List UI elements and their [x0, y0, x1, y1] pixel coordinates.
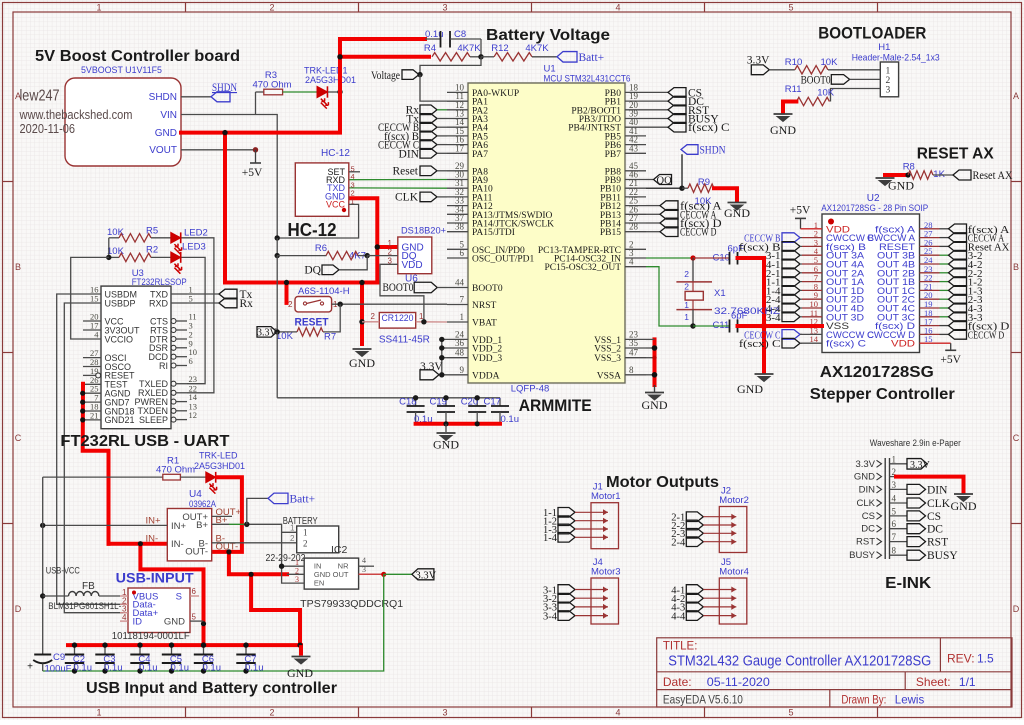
svg-text:VDD: VDD [402, 260, 423, 271]
wire SHDN to PB10 [646, 154, 682, 188]
MCU pin 30 PA9 [447, 179, 468, 181]
wire DS18B20 VDD to VBAT net [380, 264, 424, 322]
svg-text:4: 4 [629, 257, 634, 267]
svg-text:PA7: PA7 [472, 150, 488, 160]
resistor R10 [795, 66, 828, 74]
U3 pin 3 RTS [171, 328, 176, 333]
U3 pin 7 GND7 [83, 401, 101, 403]
connector J1 body [591, 503, 619, 549]
svg-text:5VBOOST U1V11F5: 5VBOOST U1V11F5 [81, 65, 162, 75]
MCU pin 8 VSSA [625, 374, 646, 376]
svg-text:ARMMITE: ARMMITE [519, 397, 592, 415]
svg-text:RI: RI [159, 361, 168, 371]
svg-text:EN: EN [314, 579, 324, 588]
junction IC2 OUT [381, 572, 386, 577]
svg-text:RST: RST [927, 537, 948, 549]
capacitor C2 [74, 645, 76, 654]
svg-text:DC: DC [861, 524, 875, 535]
net flag f(scx) D (U2 right) [949, 321, 967, 331]
wire USBDM down to USB Data- [57, 294, 123, 604]
U3 pin 27 OSCI [83, 357, 101, 359]
svg-text:PA15/JTDI: PA15/JTDI [472, 228, 515, 238]
svg-text:1: 1 [96, 708, 101, 718]
junction IN+ rail [40, 523, 45, 528]
wire J1 pin 2 with arrow [575, 520, 608, 522]
LED LED2 [171, 232, 181, 243]
svg-text:38: 38 [455, 222, 465, 232]
svg-text:1.5: 1.5 [977, 652, 994, 666]
svg-text:0.1u: 0.1u [171, 663, 190, 674]
net flag f(scx) A (MCU right) [646, 205, 660, 207]
wire HC-12 VCC to VIN rail [277, 204, 358, 238]
net flag DC (MCU right) [646, 100, 668, 102]
svg-text:1: 1 [460, 312, 465, 322]
svg-text:GND: GND [854, 472, 875, 483]
svg-text:05-11-2020: 05-11-2020 [707, 675, 770, 689]
svg-text:3: 3 [442, 708, 447, 718]
svg-text:IN-: IN- [146, 534, 159, 545]
MCU pin 23 VSS_1 [625, 338, 646, 340]
svg-text:3: 3 [442, 3, 447, 13]
red wire U3 GND pins [83, 384, 109, 544]
MCU pin 47 VSS_3 [625, 357, 646, 359]
svg-text:QQ: QQ [657, 176, 673, 187]
svg-text:BUSY: BUSY [849, 550, 876, 561]
MCU pin 45 PB8 [625, 170, 646, 172]
resistor R8 [908, 171, 933, 179]
svg-text:VSS_2: VSS_2 [594, 345, 621, 355]
svg-text:SHDN: SHDN [149, 92, 177, 103]
MCU pin 25 PB12 [625, 205, 646, 207]
svg-text:47: 47 [629, 348, 639, 358]
svg-text:AX1201728SG: AX1201728SG [820, 364, 934, 381]
resistor R3 (euro box) [255, 92, 257, 115]
BATTERY body [297, 526, 339, 553]
net flag 3.3V (e-ink) [907, 459, 927, 470]
svg-text:2: 2 [288, 300, 293, 309]
svg-text:GND: GND [164, 617, 185, 628]
svg-text:Motor Outputs: Motor Outputs [606, 474, 719, 491]
switch A6S-1104-H body [295, 297, 332, 312]
junction red rail corner [337, 54, 342, 59]
svg-text:BOOT0: BOOT0 [383, 282, 414, 294]
svg-text:DIN: DIN [859, 484, 876, 495]
MCU pin 27 PB14 [625, 222, 646, 224]
svg-text:1: 1 [886, 67, 891, 77]
svg-text:OUT: OUT [333, 570, 349, 579]
svg-text:Motor1: Motor1 [591, 491, 621, 502]
net flag Batt+ (top) [557, 52, 577, 63]
svg-text:3.3V: 3.3V [257, 328, 278, 339]
capacitor C4 [139, 645, 141, 654]
net flag CLK (e-ink) [907, 498, 926, 508]
junction IN- [138, 541, 143, 546]
svg-text:6: 6 [460, 248, 465, 258]
svg-text:f(scx) C: f(scx) C [739, 338, 781, 350]
MCU pin 24 VDD_1 [447, 338, 468, 340]
svg-text:GND: GND [314, 570, 331, 579]
net flag BUSY (MCU right) [646, 118, 668, 120]
junction red 282/switch [284, 280, 289, 285]
capacitor C11 [693, 325, 730, 327]
wire J1 pin 1 with arrow [575, 511, 608, 513]
svg-text:SHDN: SHDN [700, 145, 727, 157]
wire CR1220 pin1 to VBAT [416, 321, 447, 323]
svg-text:Lewis: Lewis [895, 695, 925, 707]
svg-text:USB-INPUT: USB-INPUT [116, 571, 195, 586]
svg-text:+: + [27, 662, 33, 673]
svg-text:R7: R7 [324, 332, 336, 343]
wire PC14 to crystal (green) [646, 257, 693, 259]
net flag 1-3 (U2 right) [949, 286, 967, 296]
svg-text:7: 7 [460, 295, 465, 305]
svg-text:RXD: RXD [149, 298, 169, 308]
wire CR1220 pin2 to red rail [362, 321, 379, 323]
svg-text:LED3: LED3 [182, 242, 206, 253]
svg-text:Rx: Rx [240, 298, 254, 310]
capacitor C19 [445, 398, 447, 406]
svg-text:35: 35 [629, 338, 639, 348]
capacitor C18 [415, 398, 417, 406]
wire J4 pin 4 with arrow [575, 615, 608, 617]
svg-text:5: 5 [892, 506, 897, 516]
svg-text:10K: 10K [817, 88, 835, 99]
svg-text:15: 15 [90, 294, 99, 304]
svg-text:3.3V: 3.3V [910, 460, 931, 471]
svg-text:Header-Male-2.54_1x3: Header-Male-2.54_1x3 [852, 53, 940, 63]
wire VIN rail down to 3.3 flag row [276, 256, 278, 332]
svg-text:4K7K: 4K7K [457, 43, 481, 54]
ground symbol (AX VSS) [755, 373, 774, 375]
svg-text:3.3V: 3.3V [855, 459, 875, 470]
wire J2 pin 4 with arrow [703, 541, 736, 543]
svg-text:2A5G3HD01: 2A5G3HD01 [194, 461, 245, 471]
MCU pin 33 PA12 [447, 205, 468, 207]
U3 pin 20 VCC [83, 320, 101, 322]
wire Voltage to PA1 [420, 75, 468, 102]
ground symbol (e-ink) [954, 493, 973, 495]
svg-text:VDD: VDD [891, 339, 915, 350]
wire R3 to LED1 [283, 91, 317, 93]
ferrite bead BLM31PG601SH1L [43, 595, 69, 597]
svg-text:2: 2 [684, 269, 689, 279]
svg-text:C: C [1013, 433, 1020, 443]
svg-text:8: 8 [629, 365, 634, 375]
MCU pin 20 PB2/BOOT1 [625, 109, 646, 111]
svg-text:PB15: PB15 [600, 228, 621, 238]
net flag 3-3 (U2 right) [949, 312, 967, 322]
capacitor C6 [203, 645, 205, 654]
U3 pin 26 TEST [83, 383, 101, 385]
U2 red dot [828, 219, 834, 225]
svg-text:36: 36 [455, 338, 465, 348]
e-ink header body [884, 458, 886, 559]
svg-text:28: 28 [629, 222, 639, 232]
wire LED1 cathode to red rail [328, 91, 340, 93]
wire HC-12 TXD to PA10 [349, 187, 447, 189]
net flag 1-2 (U2 right) [949, 277, 967, 287]
svg-text:2A5G3HD01: 2A5G3HD01 [305, 75, 356, 85]
svg-text:PB7: PB7 [605, 150, 622, 160]
svg-text:STM32L432 Gauge Controller AX1: STM32L432 Gauge Controller AX1201728SG [668, 654, 931, 670]
svg-text:Sheet:: Sheet: [916, 675, 951, 689]
svg-text:2: 2 [269, 3, 274, 13]
svg-text:R11: R11 [785, 84, 802, 95]
junction VBAT/DS18B20 VDD [421, 319, 426, 324]
svg-text:ID: ID [133, 616, 143, 627]
MCU pin 37 PA14/JTCK/SWCLK [447, 222, 468, 224]
red wire caps gnd bus [416, 422, 500, 426]
svg-text:2: 2 [303, 539, 308, 549]
MCU pin 34 PA13/JTMS/SWDIO [447, 213, 468, 215]
resistor R7 [297, 328, 323, 336]
svg-text:1: 1 [290, 524, 295, 533]
svg-text:48: 48 [455, 348, 465, 358]
USB pin 1 VBUS [120, 595, 128, 597]
USB connector body 10118194 [128, 588, 190, 633]
MCU pin 48 VDD_3 [447, 357, 468, 359]
svg-text:+5V: +5V [242, 167, 263, 179]
junction VOUT [253, 147, 258, 152]
MCU pin 3 PC14-OSC32_IN [625, 257, 646, 259]
svg-text:lew247: lew247 [20, 87, 60, 104]
junction 3.3 flag/R7 [275, 329, 280, 334]
MCU pin 39 PB3/JTDO [625, 118, 646, 120]
svg-text:+5V: +5V [790, 205, 811, 217]
U3 pin 9 DSR [171, 345, 176, 350]
svg-text:CR1220: CR1220 [382, 313, 414, 324]
svg-text:GND: GND [951, 499, 977, 513]
svg-text:VSSA: VSSA [597, 371, 621, 381]
svg-text:Reset: Reset [392, 166, 418, 178]
MCU pin 11 PA1 [447, 100, 468, 102]
USB pin 4 ID [120, 620, 128, 622]
capacitor C20 [476, 398, 478, 406]
svg-text:2: 2 [290, 534, 295, 543]
resistor R4 [432, 53, 470, 61]
net flag CS (MCU right) [646, 91, 668, 93]
wire J5 pin 1 with arrow [703, 589, 736, 591]
svg-text:0.1u: 0.1u [74, 663, 93, 674]
svg-text:A: A [1013, 91, 1019, 101]
net flag 3.3V (R7) [257, 327, 277, 338]
svg-text:USB Input and Battery controll: USB Input and Battery controller [86, 680, 337, 697]
net flag CECCW D (MCU right) [646, 231, 660, 233]
svg-text:0.1u: 0.1u [104, 663, 123, 674]
svg-text:USB-VCC: USB-VCC [46, 566, 80, 577]
USB pin 2 Data- [120, 603, 128, 605]
junction crystal top [690, 255, 695, 260]
svg-text:3: 3 [886, 85, 891, 95]
MCU pin 9 VDDA [447, 374, 468, 376]
svg-text:0.1u: 0.1u [203, 663, 222, 674]
U3 pin 23 TXLED [171, 381, 176, 386]
svg-text:IN-: IN- [171, 539, 184, 550]
svg-text:0.1u: 0.1u [245, 663, 264, 674]
svg-text:S: S [176, 592, 182, 603]
MCU pin 14 PA4 [447, 126, 468, 128]
red wire GND to R8 [885, 173, 908, 177]
svg-text:R8: R8 [903, 162, 915, 173]
svg-text:2: 2 [684, 282, 689, 292]
ground symbol (caps) [445, 424, 447, 432]
junction VSS_2 [652, 345, 658, 351]
green wire 3.3V down to bottom bus [43, 574, 384, 671]
junction red 282/CR1220 [359, 280, 364, 285]
svg-text:17: 17 [455, 143, 465, 153]
svg-text:6: 6 [189, 356, 193, 366]
svg-text:Date:: Date: [663, 675, 692, 689]
LED LED3 [171, 252, 181, 263]
svg-text:A6S-1104-H: A6S-1104-H [298, 286, 350, 297]
svg-text:5: 5 [788, 708, 793, 718]
MCU pin 16 PA6 [447, 144, 468, 146]
wire OUT+ stub [212, 515, 232, 517]
junction bus 202 [201, 643, 206, 648]
U4 charger body 03962A [167, 509, 211, 561]
MCU pin 13 PA3 [447, 118, 468, 120]
wire VIN rail down to R6 [276, 238, 278, 256]
svg-text:8: 8 [892, 546, 897, 556]
svg-text:R12: R12 [491, 43, 508, 54]
MCU pin 2 PC13-TAMPER-RTC [625, 248, 646, 250]
svg-text:Batt+: Batt+ [579, 52, 605, 64]
net flag QQ [646, 179, 653, 181]
capacitor C17 [499, 398, 501, 406]
svg-text:4: 4 [615, 708, 620, 718]
svg-text:6pF: 6pF [731, 311, 748, 322]
svg-text:GND: GND [770, 123, 796, 137]
svg-text:1: 1 [684, 312, 689, 322]
U2 pin13 stub [800, 333, 822, 335]
resistor R2 [109, 256, 119, 258]
wire J2 pin 1 with arrow [703, 516, 736, 518]
net flag 4-2 (U2 right) [949, 259, 967, 269]
red junction VSS rail [761, 323, 767, 329]
net flag f(scx) C (MCU right) [646, 126, 668, 128]
svg-text:Drawn By:: Drawn By: [841, 695, 886, 707]
wire Voltage net to R4/R12 junction [420, 57, 481, 75]
MCU pin 46 PB9 [625, 179, 646, 181]
junction R8 [905, 172, 910, 177]
U3 pin 4 VCCIO [83, 338, 101, 340]
red wire LED to OUT- / battery net [68, 477, 301, 645]
red wire VSS rail MCU right [653, 339, 657, 385]
junction bus 300 [297, 643, 302, 648]
wire LED2 to RXLED [182, 238, 214, 393]
U3 FT232RL body [101, 286, 171, 429]
junction crystal bottom [690, 323, 695, 328]
svg-text:BUSY: BUSY [927, 550, 958, 562]
net flag DIN (e-ink) [907, 484, 926, 494]
red wire C10 to AX VSS rail [738, 258, 765, 372]
svg-text:OUT-: OUT- [185, 547, 208, 558]
svg-text:FT232RL USB - UART: FT232RL USB - UART [60, 433, 229, 450]
svg-text:5: 5 [788, 3, 793, 13]
MCU pin 5 OSC_IN/PD0 [447, 248, 468, 250]
svg-text:1: 1 [303, 528, 308, 538]
capacitor C9 (electrolytic) [42, 648, 44, 655]
svg-text:12: 12 [189, 410, 198, 420]
MCU pin 4 PC15-OSC32_OUT [625, 266, 646, 268]
U3 pin 13 TXDEN [171, 408, 176, 413]
svg-text:4: 4 [362, 556, 366, 565]
svg-text:1/1: 1/1 [959, 675, 976, 689]
MCU pin 29 PA8 [447, 170, 468, 172]
svg-text:GND: GND [724, 206, 750, 220]
MCU pin 41 PB5 [625, 135, 646, 137]
svg-text:REV:: REV: [947, 652, 975, 666]
svg-text:GND21: GND21 [105, 415, 135, 425]
junction battery/IC2 IN [279, 564, 284, 569]
HC-12 module body [295, 163, 349, 216]
MCU pin 17 PA7 [447, 152, 468, 154]
U3 pin 16 USBDM [83, 293, 101, 295]
capacitor C7 [245, 645, 247, 654]
wire 3.3V rail to decoupling caps [277, 397, 500, 399]
svg-text:44: 44 [455, 278, 465, 288]
svg-text:f(scx) C: f(scx) C [826, 339, 866, 350]
MCU pin 26 PB13 [625, 213, 646, 215]
svg-text:DS18B20+: DS18B20+ [401, 226, 446, 237]
svg-text:DIN: DIN [399, 149, 420, 161]
MCU pin 1 VBAT [447, 321, 468, 323]
svg-text:HC-12: HC-12 [321, 148, 350, 159]
junction VDD [439, 355, 444, 360]
junction VSSA [652, 372, 658, 378]
svg-text:DC: DC [927, 524, 943, 536]
svg-text:VCC: VCC [326, 200, 346, 210]
svg-text:CLK: CLK [927, 498, 951, 510]
capacitor C3 [104, 645, 106, 654]
svg-text:5: 5 [189, 294, 193, 304]
wire DQ node to DS18B20 DQ [367, 255, 380, 257]
MCU pin 6 OSC_OUT/PD1 [447, 257, 468, 259]
svg-text:B+: B+ [196, 520, 208, 531]
MCU pin 43 PB7 [625, 152, 646, 154]
MCU pin 22 PB11 [625, 196, 646, 198]
svg-text:CS: CS [927, 511, 941, 523]
junction FB [40, 593, 45, 598]
net flag Tx (U3) [187, 293, 219, 295]
wire R5/R2 left legs to VCCIO [108, 238, 110, 258]
wire VOUT to +5V [181, 149, 256, 151]
svg-text:LQFP-48: LQFP-48 [511, 384, 550, 395]
red wire e-ink GND [896, 477, 964, 492]
net flag Reset AX (R8) [953, 170, 971, 180]
svg-text:PC15-OSC32_OUT: PC15-OSC32_OUT [544, 263, 621, 273]
wire J5 pin 2 with arrow [703, 597, 736, 599]
MCU pin 19 PB1 [625, 100, 646, 102]
svg-text:4: 4 [892, 494, 897, 504]
svg-text:VSS_3: VSS_3 [594, 354, 621, 364]
svg-text:10K: 10K [107, 227, 125, 238]
ground symbol (reset ax) [876, 177, 895, 179]
junction R4/R12/C8 [478, 54, 483, 59]
+5V power symbol [255, 150, 257, 163]
resistor R12 [481, 56, 494, 58]
svg-text:VDD_2: VDD_2 [472, 345, 502, 355]
MCU pin 36 VDD_2 [447, 347, 468, 349]
svg-text:100uF: 100uF [45, 664, 72, 675]
svg-text:Reset AX: Reset AX [973, 170, 1014, 182]
junction red/boost GND [222, 130, 227, 135]
LED TRK-LED (bottom) [206, 472, 216, 483]
svg-text:7: 7 [892, 532, 897, 542]
net flag RST (MCU right) [646, 109, 668, 111]
svg-text:f(scx) C: f(scx) C [688, 122, 730, 134]
svg-text:BOOTLOADER: BOOTLOADER [818, 24, 926, 43]
